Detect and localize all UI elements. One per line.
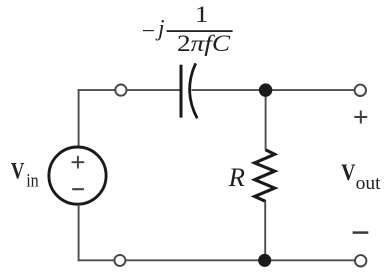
wire: bottom middle segment bbox=[126, 259, 265, 261]
node: output terminal top-right (open circle) bbox=[355, 85, 366, 96]
node A: junction dot top bbox=[259, 83, 272, 96]
svg-text:R: R bbox=[228, 162, 245, 192]
node: output terminal bottom-right (open circle) bbox=[355, 255, 366, 266]
capacitor C (curved plate) bbox=[190, 63, 198, 118]
source minus sign bbox=[72, 188, 84, 190]
wire: terminal to capacitor bbox=[127, 89, 180, 91]
source plus sign bbox=[72, 161, 85, 163]
capacitor C (left plate) bbox=[180, 65, 183, 118]
resistor R (zigzag) bbox=[255, 150, 275, 202]
wire: bottom-left horizontal segment bbox=[78, 259, 115, 261]
svg-text:2πfC: 2πfC bbox=[177, 31, 231, 56]
svg-text:V: V bbox=[11, 158, 25, 183]
fraction bar bbox=[167, 30, 233, 32]
node B: junction dot bottom bbox=[258, 254, 271, 267]
wire: capacitor to junction A bbox=[192, 89, 266, 91]
svg-text:V: V bbox=[341, 160, 356, 185]
node: input terminal bottom-left (open circle) bbox=[114, 255, 125, 266]
svg-text:in: in bbox=[26, 171, 39, 192]
svg-text:−: − bbox=[142, 19, 155, 45]
wire: left vertical, top of source bbox=[78, 89, 80, 146]
wire: junction B to output terminal bottom-right bbox=[265, 259, 355, 261]
output minus sign bbox=[353, 231, 369, 234]
wire: resistor down to junction B bbox=[264, 201, 266, 260]
wire: junction A down to resistor bbox=[265, 90, 267, 150]
source V1 circle bbox=[49, 147, 106, 204]
svg-text:1: 1 bbox=[195, 2, 209, 27]
node: input terminal top-left (open circle) bbox=[115, 85, 126, 96]
output plus sign bbox=[354, 116, 367, 118]
svg-text:out: out bbox=[356, 173, 382, 194]
wire: left vertical, bottom of source bbox=[78, 205, 80, 261]
wire: junction A to output terminal top-right bbox=[266, 89, 355, 91]
wire: top-left horizontal segment bbox=[78, 89, 116, 91]
